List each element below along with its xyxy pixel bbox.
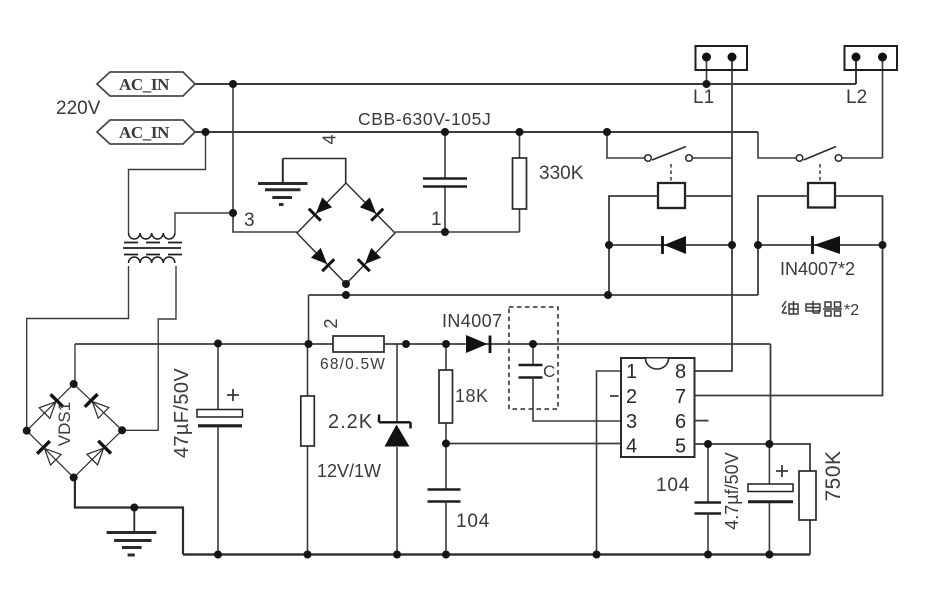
resistor 2.2K	[301, 344, 315, 555]
wire relay1 left	[609, 196, 658, 245]
wire relay2 left	[758, 196, 808, 245]
node AC2 rail	[202, 128, 210, 136]
node cap bottom	[441, 228, 449, 236]
wire L1 left pin lead	[706, 57, 708, 84]
relay coil K1	[658, 183, 685, 208]
diode B1 bottom-left	[310, 247, 334, 271]
dashed box	[509, 307, 558, 409]
node pin4 / 18K	[442, 440, 450, 448]
svg-text:104: 104	[456, 511, 490, 532]
svg-text:1: 1	[626, 361, 637, 383]
wire VDS top lead	[74, 344, 76, 384]
wire bottom rail	[183, 553, 810, 555]
wire main rail y344 right part	[384, 344, 771, 444]
diode VDS bottom-right	[86, 441, 111, 466]
wire mid rail y295	[309, 294, 759, 296]
diode B1 bottom-right	[358, 247, 382, 271]
junction nodes	[23, 80, 887, 559]
wire relay1 right	[685, 195, 732, 197]
resistor 18K	[439, 344, 453, 490]
svg-text:1: 1	[431, 209, 442, 230]
node diode1 ends	[605, 241, 613, 249]
svg-text:C: C	[543, 362, 555, 381]
svg-text:CBB-630V-105J: CBB-630V-105J	[358, 109, 491, 129]
svg-text:2.2K: 2.2K	[328, 411, 373, 433]
svg-text:4.7µf/50V: 4.7µf/50V	[722, 452, 742, 529]
wire relay2 right to IC pin7	[695, 196, 883, 396]
IC U1	[621, 358, 695, 458]
wire drop y295 to y344	[308, 295, 310, 344]
wire switch1 to vertical	[693, 157, 733, 159]
bridge VDS1	[27, 384, 122, 478]
svg-text:VDS1: VDS1	[55, 402, 74, 446]
svg-text:18K: 18K	[455, 386, 489, 406]
svg-text:IN4007*2: IN4007*2	[780, 259, 855, 279]
core	[124, 242, 182, 244]
connector L1	[696, 46, 748, 70]
svg-text:47µF/50V: 47µF/50V	[171, 368, 193, 459]
wire L1 right pin vertical to IC pin8	[695, 57, 733, 371]
capacitor 104 (right)	[695, 444, 722, 555]
wire VDS bottom to ground jog	[75, 478, 183, 555]
primary winding	[129, 233, 175, 239]
diode VDS top-left	[38, 394, 63, 419]
wire main rail y344 left part	[75, 343, 333, 345]
wire AC line 2 rail	[195, 131, 758, 133]
svg-text:4: 4	[626, 436, 637, 458]
svg-text:8: 8	[675, 361, 686, 383]
zener diode 12V/1W	[379, 344, 411, 555]
capacitor 104 (left)	[428, 490, 461, 555]
wire drop from AC line 1 to bridge left	[233, 84, 297, 232]
svg-text:*2: *2	[844, 302, 859, 319]
connector L2	[845, 46, 898, 70]
svg-text:4: 4	[320, 134, 340, 144]
svg-text:5: 5	[675, 436, 686, 458]
wire feed to switch 1	[607, 132, 645, 158]
svg-text:IN4007: IN4007	[442, 311, 502, 331]
diode VDS top-right	[85, 394, 110, 419]
svg-text:3: 3	[626, 411, 637, 433]
wire IC pin4 to 18K bottom	[446, 443, 621, 445]
connector AC_IN (bottom)	[97, 120, 195, 144]
resistor 750K	[799, 471, 816, 520]
svg-text:3: 3	[244, 210, 255, 231]
label 继电器*2 (drawn glyphs)	[782, 301, 842, 316]
svg-text:7: 7	[675, 386, 686, 408]
bridge rectifier B1	[297, 183, 395, 284]
node bridge bottom	[342, 280, 350, 288]
wire feed to switch 2	[758, 132, 797, 158]
diode IN4007	[466, 335, 490, 353]
svg-text:2: 2	[321, 318, 341, 328]
wire IC pin5 rail to 750K	[695, 444, 811, 555]
resistor 68/0.5W	[333, 336, 384, 352]
wire IC pin6 stub	[695, 420, 709, 422]
svg-text:104: 104	[656, 475, 690, 496]
node VDS vertices	[70, 380, 78, 388]
wire switch2 to L2 right pin	[842, 57, 883, 158]
wire IC pin1 to bottom rail	[597, 371, 622, 555]
node AC1/L1	[229, 80, 237, 88]
wire primary right lead	[175, 213, 233, 233]
node diode2 ends	[754, 241, 762, 249]
capacitor CBB-630V-105J	[423, 132, 467, 232]
diode D1	[609, 236, 732, 254]
secondary winding	[129, 257, 175, 263]
svg-text:68/0.5W: 68/0.5W	[320, 356, 386, 373]
relay switch S2	[796, 147, 842, 184]
diode D2	[758, 236, 883, 254]
wire VDS left lead to transformer secondary left	[27, 266, 129, 431]
svg-text:AC_IN: AC_IN	[119, 75, 170, 94]
capacitor C	[519, 344, 622, 421]
node bottom rail	[214, 551, 222, 559]
wire VDS right lead to transformer secondary right	[122, 266, 176, 430]
svg-text:220V: 220V	[56, 98, 101, 119]
svg-text:2: 2	[626, 386, 637, 408]
wire primary left lead	[129, 132, 206, 233]
svg-text:750K: 750K	[822, 450, 845, 501]
svg-text:L1: L1	[693, 87, 714, 108]
diode B1 top-right	[359, 196, 383, 220]
resistor 330K	[513, 132, 527, 232]
connector AC_IN (top)	[97, 72, 195, 96]
wire AC line 1 top rail	[195, 57, 856, 84]
wire x758 diode2 left drop	[757, 245, 759, 295]
transformer T1	[123, 132, 233, 263]
node ground jog	[130, 504, 138, 512]
ground (top)	[258, 159, 308, 205]
capacitor 4.7uF/50V	[748, 444, 793, 555]
wire ground to bridge pin4	[283, 159, 346, 184]
relay switch S1	[645, 147, 693, 184]
node pin5 rail	[704, 440, 712, 448]
diode B1 top-left	[309, 196, 333, 220]
svg-text:AC_IN: AC_IN	[119, 123, 170, 142]
ground (bottom)	[107, 508, 157, 556]
wire bridge right to 330K bottom	[395, 231, 520, 233]
svg-text:L2: L2	[846, 87, 867, 108]
svg-text:330K: 330K	[539, 163, 584, 184]
svg-text:6: 6	[675, 411, 686, 433]
relay coil K2	[808, 183, 835, 208]
capacitor 47uF/50V	[197, 344, 243, 555]
node y344 rail	[214, 340, 222, 348]
node transformer tap	[229, 209, 237, 217]
wire x609 down	[608, 245, 610, 295]
svg-text:12V/1W: 12V/1W	[317, 461, 381, 481]
diode VDS bottom-left	[37, 441, 62, 466]
wire IC pin2 stub	[610, 395, 619, 397]
